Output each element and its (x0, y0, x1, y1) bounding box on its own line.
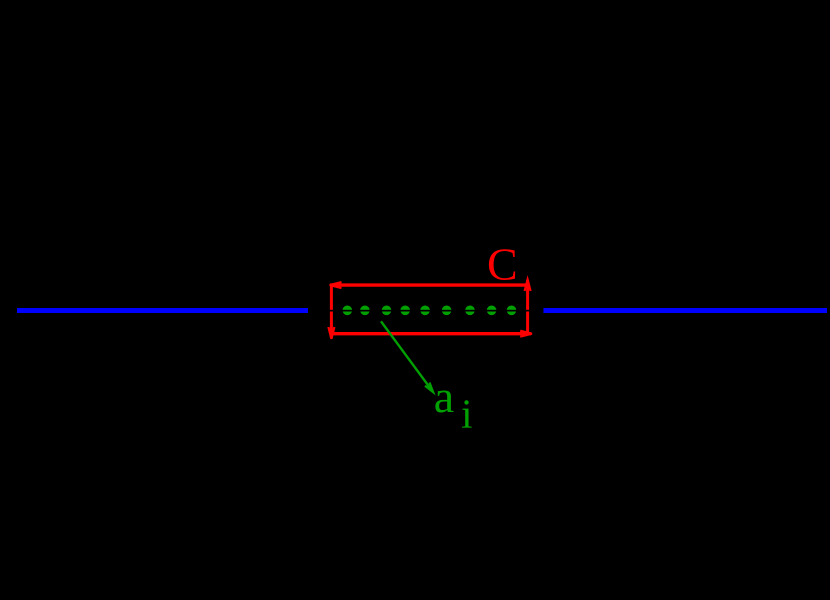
interval cover box C: right edge (red) (526, 280, 529, 334)
interval cover box C: left edge (red) (330, 284, 333, 338)
interval cover box C: top edge (red) (330, 283, 528, 286)
interval cover box C: bottom edge (red) (330, 332, 531, 335)
node dot a3 (382, 306, 392, 316)
node dot a7 (465, 306, 475, 316)
arrowhead left on top edge of C (330, 282, 342, 288)
svg-text:a: a (434, 371, 454, 422)
node dot a1 (343, 306, 353, 316)
pointer arrowhead (green) (425, 383, 433, 393)
arrowhead up on right edge of C (525, 280, 531, 292)
node dot a9 (507, 306, 517, 316)
wire: thin black line across the box over the dots (328, 310, 540, 312)
svg-text:C: C (487, 239, 518, 290)
node dot a2 (360, 306, 370, 316)
node dot a6 (442, 306, 452, 316)
node dot a8 (487, 306, 497, 316)
wire: blue real-number line, right segment (544, 308, 828, 313)
wire: blue real-number line, left segment (17, 308, 308, 313)
pointer arrow to a_i (green shaft) (381, 321, 433, 391)
svg-text:i: i (461, 391, 472, 437)
node dot a4 (400, 306, 410, 316)
arrowhead right on bottom edge of C (520, 331, 532, 337)
node dot a5 (420, 306, 430, 316)
arrowhead down on left edge of C (328, 327, 334, 339)
